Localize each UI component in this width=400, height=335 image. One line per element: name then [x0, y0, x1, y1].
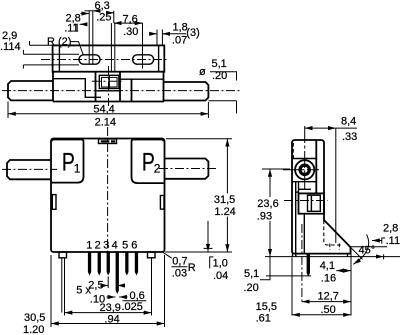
block end line left	[58, 45, 60, 71]
svg-text:4,1: 4,1	[320, 260, 335, 272]
fraction bar 1,8	[162, 33, 186, 35]
front center vertical centerline	[107, 127, 109, 256]
top view upper block	[53, 45, 165, 71]
hidden dash top left	[292, 143, 294, 158]
svg-text:1.24: 1.24	[214, 206, 235, 218]
latch right	[160, 196, 164, 210]
inner step line left	[53, 78, 86, 80]
dim 1,0 arrow down	[207, 221, 209, 252]
port tube right (front)	[165, 159, 209, 179]
dim 2,8 arrow	[372, 240, 382, 242]
port box P1	[52, 140, 84, 183]
svg-text:1,0: 1,0	[213, 258, 228, 270]
center square outer	[99, 75, 119, 88]
pin 5	[125, 252, 128, 276]
dim 23,6 extension top	[262, 168, 290, 170]
pin 2	[98, 252, 101, 276]
pin tip extension	[266, 275, 311, 277]
tick 2,8	[88, 11, 90, 65]
svg-text:8,4: 8,4	[341, 115, 356, 127]
square horizontal centerline	[92, 80, 124, 82]
svg-text:.114: .114	[0, 41, 21, 53]
center tab right edge	[119, 72, 121, 102]
svg-text:7,6: 7,6	[123, 13, 138, 25]
dim 6,3/.25 extension right upper	[113, 11, 115, 23]
dim line 31,5 upper part	[226, 139, 228, 194]
45 degree arc	[353, 234, 368, 264]
hidden ticks	[329, 244, 331, 251]
svg-text:.50: .50	[321, 304, 336, 316]
dim 54,4/2.14 extensions	[7, 102, 9, 119]
inner wall line	[295, 182, 297, 254]
dim extension for 7,6 right	[142, 23, 144, 68]
latch left	[52, 195, 56, 210]
svg-text:1: 1	[86, 240, 92, 252]
bracket .11	[382, 238, 385, 244]
left tube centerline	[2, 168, 57, 170]
dim 6,3/.25 extension left	[92, 11, 94, 64]
svg-text:54,4: 54,4	[93, 103, 114, 115]
mounting slot left	[79, 55, 100, 64]
mounting slot right	[133, 55, 154, 64]
svg-text:6: 6	[131, 240, 137, 252]
inner step line right	[120, 78, 164, 80]
dim 7,6/.30 extension pair	[110, 23, 112, 72]
svg-text:.07: .07	[172, 35, 187, 47]
svg-text:.20: .20	[244, 282, 259, 294]
port tube left (top view)	[8, 81, 53, 100]
svg-text:2,8: 2,8	[383, 223, 398, 235]
pin 3	[107, 252, 110, 276]
svg-text:0,6: 0,6	[130, 290, 145, 302]
parting line vertical	[315, 140, 317, 193]
dim line 30,5	[51, 323, 165, 325]
foot right (side)	[347, 254, 349, 257]
dim line 7,6	[114, 22, 121, 24]
svg-text:(3): (3)	[186, 27, 199, 39]
latch centerline (side)	[284, 200, 328, 202]
extension pin3	[107, 277, 109, 289]
svg-text:6,3: 6,3	[95, 0, 110, 12]
extension 15,5 left	[291, 258, 293, 316]
port crosshair vertical	[304, 126, 306, 189]
right tube centerline	[159, 168, 218, 170]
extension foot right	[151, 258, 153, 316]
lower inner vertical	[303, 214, 305, 254]
dim 2,5 arrows	[101, 285, 108, 287]
dim line 23,9	[65, 312, 152, 314]
center tab left edge	[95, 72, 97, 102]
svg-text:5,1: 5,1	[212, 58, 227, 70]
seat line tick right	[383, 254, 385, 259]
latch outer (side)	[299, 193, 325, 213]
fraction bar 0,7	[171, 266, 187, 268]
svg-text:ø: ø	[199, 66, 206, 78]
svg-text:31,5: 31,5	[214, 194, 235, 206]
bracket after .11	[74, 24, 77, 31]
dim 8,4 line	[305, 127, 336, 129]
svg-text:.03: .03	[172, 268, 187, 280]
port circle outer	[295, 160, 314, 179]
svg-text:4: 4	[112, 240, 118, 252]
chamfer extension thin	[351, 247, 363, 259]
bracket 5,1	[260, 257, 270, 280]
svg-text:45°: 45°	[359, 245, 376, 257]
center square inner	[102, 77, 118, 87]
svg-text:1: 1	[74, 162, 81, 176]
extension right for 4,1/12,7/15,5	[350, 250, 352, 316]
extension 8,4 right / 4,1 left	[335, 128, 337, 243]
dim 1,0 tick	[204, 247, 213, 249]
arrows 1,8 outside	[150, 33, 157, 35]
svg-text:.33: .33	[342, 131, 357, 143]
leader 0,7R	[163, 253, 172, 259]
center vertical centerline (tab)	[108, 66, 110, 106]
svg-text:.11: .11	[386, 235, 400, 247]
foot right	[148, 252, 156, 258]
leader R(2)	[70, 42, 84, 56]
port boss bottom line	[292, 181, 316, 183]
svg-text:.04: .04	[213, 270, 228, 282]
body bottom flange edge	[53, 101, 164, 103]
dim 4,1 line	[336, 270, 351, 272]
port crosshair horizontal	[283, 169, 319, 171]
extension 31,5 top	[166, 138, 232, 140]
foot left (side)	[292, 254, 294, 257]
dim line 6,3	[85, 10, 93, 12]
extension body right down	[164, 255, 166, 327]
extension body left down	[50, 255, 52, 327]
svg-text:5: 5	[122, 240, 128, 252]
svg-text:R: R	[188, 262, 196, 274]
pin 6	[135, 252, 138, 276]
pin 1	[88, 252, 91, 276]
svg-text:2,5: 2,5	[88, 279, 103, 291]
step notch	[298, 182, 300, 194]
body right edge	[163, 72, 165, 102]
dim 23,6 line lower	[269, 221, 271, 257]
notch inner bars	[101, 140, 110, 142]
dim 1,8/.07(3) extensions	[156, 30, 158, 46]
slot centerline horizontal	[41, 59, 169, 61]
side body outline	[292, 140, 351, 254]
center tab bottom	[96, 90, 121, 92]
svg-text:12,7: 12,7	[318, 290, 339, 302]
svg-text:.25: .25	[96, 11, 111, 23]
svg-text:23,6: 23,6	[257, 198, 278, 210]
latch inner (side)	[308, 195, 321, 211]
svg-text:.93: .93	[257, 211, 272, 223]
port tube left (front)	[7, 160, 51, 179]
inner step horizontal left	[85, 96, 102, 98]
foot left	[59, 252, 67, 258]
dim line 54,4	[8, 113, 208, 115]
dim 2,9/.114 reference lines	[30, 44, 53, 46]
front body outline	[51, 139, 165, 253]
svg-text:1.20: 1.20	[23, 324, 44, 335]
dim arrow 2,8 upper	[81, 13, 90, 15]
port circle middle (thick ring)	[300, 165, 309, 174]
bottom edge extension right (2,8 ref)	[351, 246, 388, 248]
dim 15,5 line	[292, 314, 351, 316]
leader bar 5,1	[210, 72, 237, 114]
svg-text:5,1: 5,1	[244, 268, 259, 280]
svg-text:15,5: 15,5	[256, 301, 277, 313]
port box P2	[132, 140, 164, 184]
port boss top line	[292, 158, 316, 160]
latch inner divider	[310, 195, 312, 211]
dim 23,6 line upper	[269, 169, 271, 197]
svg-text:2: 2	[95, 240, 101, 252]
dim arrow 2,8 lower	[80, 23, 86, 25]
svg-text:30,5: 30,5	[24, 312, 45, 324]
extension foot left b	[61, 258, 63, 313]
pin 4 (long)	[116, 252, 119, 294]
top vent notch	[99, 139, 117, 144]
inner step vertical right	[131, 79, 133, 101]
seating plane line	[265, 256, 384, 258]
svg-text:.025: .025	[122, 301, 143, 313]
svg-text:0,7: 0,7	[172, 256, 187, 268]
bottom extension line right	[165, 251, 232, 253]
inner wall step	[295, 191, 298, 193]
svg-text:.30: .30	[123, 26, 138, 38]
inner step vertical left	[84, 79, 86, 98]
dim 0,6 arrows	[107, 296, 116, 298]
tube axis centerline	[2, 90, 240, 92]
extension centerline 12,7 left	[301, 224, 303, 303]
hidden edge vertical	[324, 221, 342, 246]
tube bottom extension	[208, 100, 236, 102]
body left edge	[52, 72, 54, 102]
svg-text:23,9: 23,9	[100, 302, 121, 314]
svg-text:.16: .16	[321, 273, 336, 285]
dim 8,4 bar under text	[336, 127, 357, 129]
side pin	[307, 254, 310, 277]
svg-text:3: 3	[103, 240, 109, 252]
extension foot left	[64, 258, 66, 316]
bracket 1,0	[210, 257, 214, 269]
dim 12,7 line	[302, 301, 351, 303]
dim line 31,5 lower part	[226, 217, 228, 253]
svg-text:R (2): R (2)	[47, 36, 71, 48]
port tube right (top view)	[164, 82, 209, 101]
svg-text:2.14: 2.14	[95, 116, 116, 128]
fraction bar 0,6	[123, 300, 147, 302]
svg-text:.61: .61	[256, 312, 271, 324]
block end line right	[158, 45, 160, 71]
